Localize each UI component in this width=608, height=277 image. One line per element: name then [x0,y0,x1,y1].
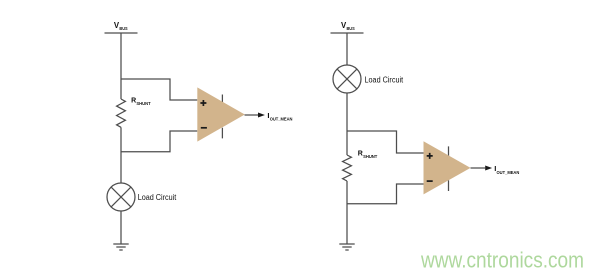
svg-text:BUS: BUS [119,26,127,31]
svg-text:Load Circuit: Load Circuit [138,193,177,202]
svg-text:BUS: BUS [347,26,355,31]
svg-text:SHUNT: SHUNT [363,154,377,159]
svg-text:www.cntronics.com: www.cntronics.com [420,248,584,273]
svg-text:SHUNT: SHUNT [136,101,150,106]
svg-text:Load Circuit: Load Circuit [365,75,404,84]
svg-text:R: R [358,151,363,158]
svg-text:OUT_MEAN: OUT_MEAN [497,170,520,175]
svg-text:R: R [131,98,136,105]
svg-text:OUT_MEAN: OUT_MEAN [270,117,293,122]
